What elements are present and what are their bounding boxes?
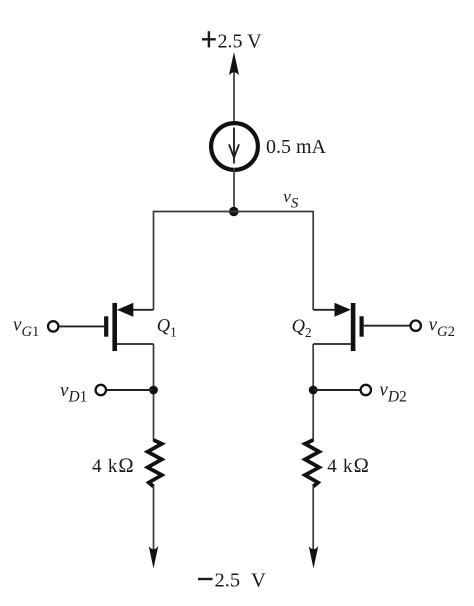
wire Q1 drain down to resistor — [153, 344, 155, 441]
wire horizontal bus at node vS — [154, 212, 314, 311]
supply label +2.5 V — [202, 31, 262, 53]
wire and arrow to -2.5 V (right) — [309, 487, 319, 569]
wire Q2 drain down to resistor — [312, 344, 314, 441]
terminal vG1 circle and gate lead — [48, 321, 104, 331]
svg-text:4 kΩ: 4 kΩ — [327, 455, 370, 477]
svg-text:2.5: 2.5 — [215, 570, 241, 592]
node vD2 junction dot — [309, 386, 318, 395]
transistor Q2 — [313, 303, 361, 351]
svg-text:0.5 mA: 0.5 mA — [266, 136, 327, 158]
svg-text:2.5 V: 2.5 V — [218, 31, 263, 53]
terminal vD2 circle and lead — [313, 385, 371, 395]
svg-text:4 kΩ: 4 kΩ — [92, 455, 135, 477]
wire current source to node vS — [233, 168, 235, 212]
svg-text:V: V — [251, 570, 266, 592]
terminal vG2 circle and gate lead — [364, 321, 421, 331]
current source I 0.5 mA — [211, 123, 258, 170]
resistor R2 4 kOhm — [305, 440, 319, 487]
resistor R1 4 kOhm — [148, 440, 162, 487]
node vS junction dot — [229, 207, 239, 217]
wire and arrow to -2.5 V (left) — [149, 487, 159, 569]
arrow to +2.5 V supply — [229, 52, 239, 123]
terminal vD1 circle and lead — [96, 385, 154, 395]
node vD1 junction dot — [149, 386, 158, 395]
transistor Q1 — [106, 303, 153, 351]
supply label -2.5 V — [198, 570, 266, 592]
